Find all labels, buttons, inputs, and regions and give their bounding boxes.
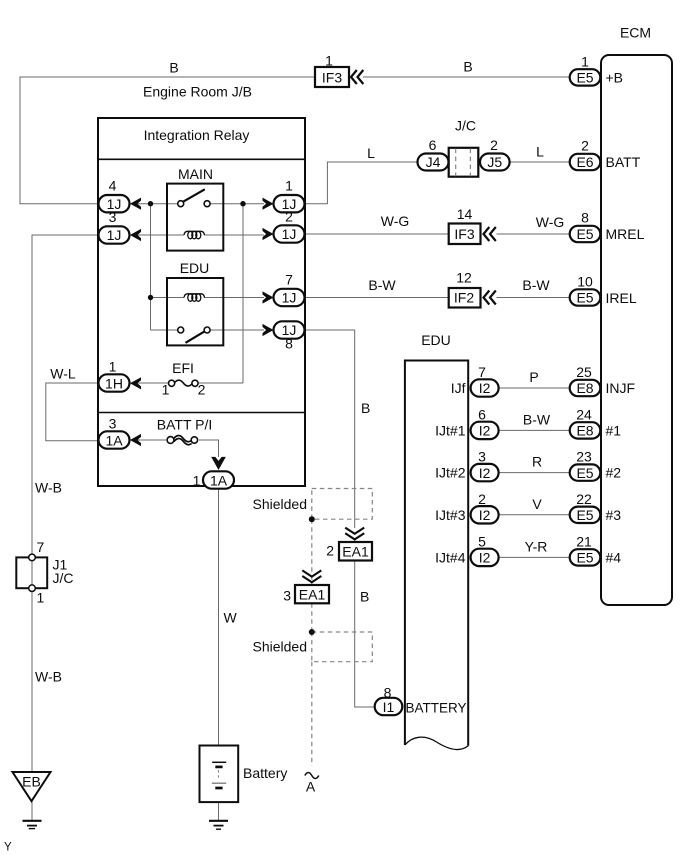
- wire W-B from J1 to EB: [31, 591, 33, 772]
- pin 1H 1 oval: [99, 374, 130, 391]
- wire L from 1J pin1 up to J4: [304, 162, 418, 204]
- arrow into 1H pin1: [130, 377, 141, 389]
- wire L from J5 to E6: [509, 161, 570, 163]
- svg-text:W-G: W-G: [381, 213, 410, 229]
- svg-text:3: 3: [109, 416, 117, 432]
- shield dashed wire below EA1 pin3: [311, 603, 313, 632]
- svg-text:7: 7: [285, 272, 293, 288]
- pin I2 IJt#1 oval: [471, 422, 499, 439]
- wire row2 inside relay left: [129, 234, 184, 236]
- svg-text:Engine Room J/B: Engine Room J/B: [143, 84, 252, 100]
- wire row1 inside relay left: [129, 203, 178, 205]
- pin 1J 2 oval: [274, 225, 305, 242]
- svg-text:EDU: EDU: [180, 260, 210, 276]
- pin J4 oval: [418, 154, 449, 171]
- svg-text:22: 22: [576, 491, 592, 507]
- pin I1 8 oval: [375, 698, 403, 715]
- svg-text:2: 2: [478, 491, 486, 507]
- svg-text:1A: 1A: [105, 433, 123, 449]
- pin E5 MREL oval: [570, 226, 601, 242]
- EDU relay coil: [184, 294, 205, 302]
- svg-text:E5: E5: [576, 290, 593, 306]
- pin I2 IJt#2 oval: [471, 464, 499, 481]
- pin 1A 3 oval: [99, 431, 130, 448]
- svg-text:EFI: EFI: [172, 360, 194, 376]
- svg-text:R: R: [532, 454, 542, 470]
- shield dashed wire to EA1 pin3: [311, 519, 313, 585]
- svg-text:1: 1: [581, 54, 589, 70]
- pin 1A 1 oval: [203, 471, 234, 488]
- MAIN relay box: [167, 184, 223, 251]
- svg-text:1A: 1A: [210, 473, 228, 489]
- pin E5 #3 oval: [570, 507, 601, 523]
- ECM box: [601, 55, 672, 605]
- svg-text:#1: #1: [606, 423, 622, 439]
- svg-text:3: 3: [283, 588, 291, 604]
- wire W-B from 1J pin3 down to J1: [32, 235, 99, 557]
- svg-text:3: 3: [478, 449, 486, 465]
- wire W-L from 1H to 1A: [46, 383, 98, 441]
- wire W-G from 1J pin2 to IF3: [304, 233, 449, 235]
- arrow into 1A pin1: [211, 457, 226, 470]
- svg-text:P: P: [529, 369, 538, 385]
- svg-text:8: 8: [581, 210, 589, 226]
- svg-text:IF3: IF3: [322, 70, 342, 86]
- wire B-W IJt#1 to #1: [499, 429, 570, 431]
- ground below EB: [23, 821, 42, 829]
- arrow into 1J pin2: [263, 228, 274, 240]
- wire battery to ground: [218, 802, 220, 820]
- svg-text:7: 7: [37, 539, 45, 555]
- wire B-W from chevron to E5 IREL: [497, 297, 571, 299]
- svg-text:I2: I2: [479, 550, 491, 566]
- svg-text:IJt#4: IJt#4: [435, 550, 466, 566]
- battery box: [200, 746, 239, 803]
- wire EDU switch row left: [151, 329, 178, 331]
- wire B from connector chevron to E5 +B: [363, 76, 570, 78]
- svg-text:W-G: W-G: [536, 214, 565, 230]
- svg-text:1: 1: [325, 53, 333, 69]
- svg-text:Integration Relay: Integration Relay: [144, 127, 250, 143]
- wire EDU switch row right: [210, 329, 264, 331]
- svg-text:V: V: [532, 496, 542, 512]
- svg-text:J/C: J/C: [53, 570, 74, 586]
- arrow into 1A pin3: [130, 434, 141, 446]
- svg-text:21: 21: [576, 533, 592, 549]
- wire B-W from 1J pin7 to IF2: [304, 297, 449, 299]
- svg-text:W-B: W-B: [35, 480, 62, 496]
- pin I2 IJf oval: [471, 379, 499, 396]
- junction connector J1 box: [16, 554, 47, 591]
- MAIN relay coil: [184, 231, 205, 239]
- wire P IJf to INJF: [499, 387, 570, 389]
- tilde break symbol A: [305, 773, 319, 779]
- svg-text:W: W: [224, 610, 238, 626]
- pin E5 IREL oval: [570, 289, 601, 305]
- svg-text:B-W: B-W: [522, 277, 550, 293]
- arrow into 1J pin7: [263, 291, 274, 303]
- svg-text:IF3: IF3: [454, 226, 474, 242]
- wire R IJt#2 to #2: [499, 472, 570, 474]
- svg-text:12: 12: [456, 270, 472, 286]
- pin 1J 1 oval: [274, 195, 305, 212]
- svg-text:#2: #2: [606, 465, 622, 481]
- svg-text:W-B: W-B: [35, 669, 62, 685]
- connector chevrons after IF3 (1): [351, 70, 363, 84]
- wire EFI row right: [199, 382, 243, 384]
- connector chevrons after IF2 (12): [484, 291, 496, 305]
- svg-text:IREL: IREL: [606, 290, 637, 306]
- svg-text:IJt#2: IJt#2: [435, 465, 466, 481]
- pin E5 #4 oval: [570, 549, 601, 565]
- svg-text:MAIN: MAIN: [178, 166, 213, 182]
- svg-text:24: 24: [576, 406, 592, 422]
- wire EFI row left: [129, 382, 168, 384]
- svg-text:1H: 1H: [105, 376, 123, 392]
- connector EA1 (2) box: [339, 542, 372, 561]
- svg-text:EA1: EA1: [342, 544, 369, 560]
- BATT P/I section divider: [98, 412, 305, 414]
- EDU relay box: [167, 278, 223, 345]
- junction block J/C box: [449, 148, 479, 177]
- connector IF2 (12) box: [449, 288, 481, 308]
- wire BATT P/I to 1A pin1: [199, 440, 219, 457]
- pin 1J 8 oval: [274, 321, 305, 338]
- svg-text:E5: E5: [576, 226, 593, 242]
- connector IF3 (14) box: [449, 224, 481, 245]
- svg-text:I2: I2: [479, 507, 491, 523]
- junction dot row1 left: [148, 201, 153, 206]
- svg-text:E5: E5: [576, 69, 593, 85]
- wire vertical node to EDU switch: [150, 204, 152, 330]
- svg-text:1: 1: [109, 359, 117, 375]
- svg-text:2: 2: [326, 543, 334, 559]
- junction dot shield upper: [309, 516, 315, 522]
- svg-text:I2: I2: [479, 380, 491, 396]
- EDU block: [405, 361, 468, 750]
- svg-text:BATTERY: BATTERY: [406, 701, 467, 716]
- svg-text:Battery: Battery: [243, 765, 287, 781]
- junction dot row1 right: [240, 201, 245, 206]
- connector IF3 (1) box: [315, 67, 349, 87]
- junction dot EDU coil row: [148, 295, 153, 300]
- svg-text:IF2: IF2: [454, 289, 474, 305]
- svg-text:2: 2: [581, 138, 589, 154]
- svg-text:J5: J5: [487, 154, 502, 170]
- svg-text:Y: Y: [4, 842, 12, 854]
- arrow into 1J pin3: [130, 229, 141, 241]
- svg-text:3: 3: [109, 209, 117, 225]
- svg-text:6: 6: [429, 137, 437, 153]
- svg-text:1: 1: [285, 178, 293, 194]
- wire B from EA1 down to I1: [355, 561, 375, 708]
- wire EDU coil row left: [151, 297, 185, 299]
- svg-text:4: 4: [109, 178, 117, 194]
- svg-text:ECM: ECM: [620, 25, 651, 41]
- svg-text:2: 2: [198, 382, 206, 398]
- svg-text:6: 6: [478, 406, 486, 422]
- shield dashed box upper: [312, 489, 373, 520]
- wire vertical node to EFI: [242, 204, 244, 383]
- shield dashed box lower: [312, 632, 373, 662]
- wire EB apex to ground: [31, 800, 33, 820]
- connector chevrons above EA1 (2): [345, 528, 364, 540]
- connector chevrons above EA1 (3): [302, 570, 321, 582]
- svg-text:1: 1: [37, 589, 45, 605]
- svg-text:B: B: [463, 59, 472, 75]
- arrow into 1J pin1: [263, 198, 274, 210]
- svg-text:5: 5: [478, 533, 486, 549]
- svg-text:Shielded: Shielded: [253, 496, 308, 512]
- wire EDU coil row right: [204, 297, 264, 299]
- arrow into 1J pin8: [263, 324, 274, 336]
- pin E5 +B oval: [570, 69, 601, 85]
- svg-text:+B: +B: [606, 70, 624, 86]
- svg-text:L: L: [367, 145, 375, 161]
- pin 1J 4 oval: [99, 195, 130, 212]
- svg-text:W-L: W-L: [50, 366, 76, 382]
- svg-text:MREL: MREL: [606, 226, 645, 242]
- svg-text:INJF: INJF: [606, 380, 636, 396]
- svg-text:10: 10: [577, 274, 593, 290]
- pin I2 IJt#4 oval: [471, 549, 499, 566]
- svg-text:B: B: [361, 400, 370, 416]
- svg-text:Y-R: Y-R: [525, 539, 548, 555]
- ground EB triangle: [13, 772, 51, 801]
- svg-text:I2: I2: [479, 465, 491, 481]
- wire into EA1 box: [354, 539, 356, 542]
- svg-text:14: 14: [457, 206, 473, 222]
- wire Y-R IJt#4 to #4: [499, 556, 570, 558]
- svg-text:B: B: [360, 589, 369, 605]
- svg-text:BATT: BATT: [606, 154, 641, 170]
- battery cell symbol: [212, 762, 226, 788]
- svg-text:25: 25: [576, 364, 592, 380]
- svg-text:EDU: EDU: [421, 332, 451, 348]
- MAIN relay switch: [178, 189, 210, 206]
- svg-text:A: A: [306, 779, 316, 795]
- Integration Relay divider: [98, 158, 305, 160]
- svg-text:B-W: B-W: [523, 412, 551, 428]
- wire row1 inside relay right: [210, 203, 264, 205]
- svg-text:EB: EB: [22, 774, 41, 790]
- pin E8 #1 oval: [570, 422, 601, 438]
- svg-text:E5: E5: [576, 465, 593, 481]
- svg-text:J/C: J/C: [455, 118, 476, 134]
- svg-text:2: 2: [490, 137, 498, 153]
- wire row2 inside relay right: [204, 234, 264, 236]
- svg-text:23: 23: [576, 449, 592, 465]
- svg-text:IJt#1: IJt#1: [435, 423, 466, 439]
- svg-text:1J: 1J: [282, 290, 297, 306]
- pin 1J 7 oval: [274, 289, 305, 306]
- connector EA1 (3) box: [295, 585, 329, 603]
- ground below battery: [209, 821, 228, 829]
- wire W-G from chevron to E5 MREL: [497, 233, 571, 235]
- svg-text:E6: E6: [576, 154, 593, 170]
- svg-text:7: 7: [478, 364, 486, 380]
- arrow into 1J pin4: [130, 198, 141, 210]
- svg-text:1: 1: [193, 473, 201, 489]
- svg-text:B-W: B-W: [368, 277, 396, 293]
- svg-text:E8: E8: [576, 380, 593, 396]
- svg-text:#3: #3: [606, 507, 622, 523]
- Engine Room J/B box: [98, 118, 305, 486]
- svg-text:8: 8: [285, 336, 293, 352]
- svg-text:J4: J4: [426, 154, 441, 170]
- junction dot shield lower: [309, 629, 315, 635]
- svg-text:E5: E5: [576, 507, 593, 523]
- EDU relay switch: [178, 327, 210, 343]
- fuse EFI: [169, 380, 199, 386]
- wire B from 1J pin8 down to EA1: [304, 330, 355, 528]
- pin 1J 3 oval: [99, 226, 130, 243]
- pin J5 oval: [480, 154, 510, 171]
- svg-text:2: 2: [285, 209, 293, 225]
- svg-text:L: L: [536, 144, 544, 160]
- wire W from 1A to battery: [218, 489, 220, 746]
- svg-text:I1: I1: [383, 699, 395, 715]
- svg-text:1J: 1J: [107, 227, 122, 243]
- svg-text:E5: E5: [576, 550, 593, 566]
- svg-text:Shielded: Shielded: [253, 639, 308, 655]
- svg-text:1J: 1J: [282, 226, 297, 242]
- wire BATT P/I row left: [129, 439, 166, 441]
- svg-text:I2: I2: [479, 423, 491, 439]
- svg-text:E8: E8: [576, 423, 593, 439]
- svg-text:IJt#3: IJt#3: [435, 507, 466, 523]
- svg-text:#4: #4: [606, 550, 622, 566]
- pin E6 BATT oval: [570, 154, 601, 170]
- svg-text:BATT P/I: BATT P/I: [157, 417, 213, 433]
- shield dashed wire to point A: [311, 662, 313, 766]
- svg-text:EA1: EA1: [299, 587, 326, 603]
- connector chevrons after IF3 (14): [484, 227, 496, 241]
- svg-text:IJf: IJf: [451, 380, 466, 396]
- svg-text:1: 1: [162, 382, 170, 398]
- pin E8 INJF oval: [570, 380, 601, 396]
- wire B from IF3 to node, down to 1J pin4: [20, 77, 315, 204]
- pin I2 IJt#3 oval: [471, 506, 499, 523]
- svg-text:B: B: [169, 60, 178, 76]
- pin E5 #2 oval: [570, 464, 601, 480]
- wire V IJt#3 to #3: [499, 514, 570, 516]
- fusible link BATT P/I: [167, 435, 197, 444]
- wire through J/C box: [449, 161, 481, 163]
